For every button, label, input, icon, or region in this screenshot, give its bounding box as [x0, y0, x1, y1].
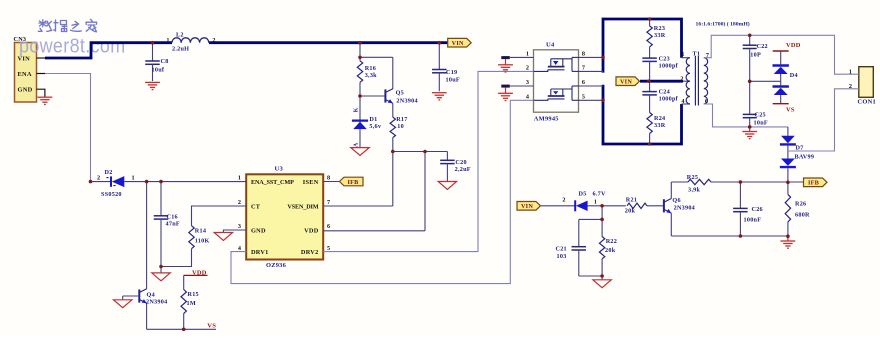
svg-text:R16: R16 — [365, 65, 376, 72]
svg-text:680R: 680R — [795, 212, 810, 219]
svg-text:3,9k: 3,9k — [688, 186, 700, 193]
svg-text:10: 10 — [397, 123, 404, 130]
svg-text:DRV2: DRV2 — [301, 249, 319, 256]
svg-text:R14: R14 — [195, 228, 206, 235]
svg-text:CT: CT — [251, 203, 261, 210]
svg-text:47nF: 47nF — [166, 221, 180, 228]
svg-text:4: 4 — [238, 245, 241, 252]
svg-text:7: 7 — [327, 199, 330, 206]
svg-text:10P: 10P — [750, 51, 761, 58]
svg-text:2: 2 — [526, 65, 529, 72]
svg-text:103: 103 — [557, 253, 567, 260]
svg-text:IFB: IFB — [808, 180, 819, 187]
svg-text:20k: 20k — [605, 247, 616, 254]
svg-text:4: 4 — [681, 98, 684, 105]
svg-text:VIN: VIN — [521, 203, 533, 210]
svg-text:BAV99: BAV99 — [795, 154, 815, 161]
svg-text:10nF: 10nF — [754, 119, 768, 126]
svg-text:8: 8 — [327, 175, 330, 182]
svg-text:R24: R24 — [654, 115, 665, 122]
svg-text:C22: C22 — [757, 43, 768, 50]
svg-text:D4: D4 — [790, 72, 798, 79]
svg-text:VDD: VDD — [304, 227, 319, 234]
svg-text:16:1.6:1700) ( 180mH): 16:1.6:1700) ( 180mH) — [696, 21, 750, 28]
svg-text:2: 2 — [212, 37, 215, 44]
svg-text:A: A — [354, 142, 360, 147]
svg-text:U4: U4 — [546, 42, 555, 49]
svg-text:1: 1 — [594, 198, 597, 205]
svg-text:1: 1 — [166, 37, 169, 44]
svg-text:5: 5 — [327, 245, 330, 252]
svg-text:1000pf: 1000pf — [659, 62, 679, 69]
svg-text:VS: VS — [207, 322, 216, 329]
svg-text:5: 5 — [582, 94, 585, 101]
svg-text:3,3k: 3,3k — [365, 72, 377, 79]
svg-text:D2: D2 — [105, 169, 113, 176]
svg-text:5,6v: 5,6v — [369, 123, 381, 130]
svg-text:2N3904: 2N3904 — [146, 298, 167, 305]
svg-text:6: 6 — [582, 79, 585, 86]
svg-text:C23: C23 — [659, 55, 670, 62]
svg-text:1: 1 — [132, 175, 135, 182]
svg-text:VS: VS — [786, 106, 795, 113]
svg-text:K: K — [354, 107, 360, 112]
svg-text:20k: 20k — [625, 207, 636, 214]
svg-text:C25: C25 — [755, 111, 766, 118]
svg-text:R15: R15 — [188, 291, 199, 298]
svg-text:1: 1 — [681, 51, 684, 58]
svg-text:L2: L2 — [176, 32, 184, 39]
svg-text:U3: U3 — [275, 166, 284, 173]
svg-text:Q4: Q4 — [147, 291, 155, 298]
svg-text:power8t.com: power8t.com — [19, 35, 125, 57]
svg-text:VIN: VIN — [452, 40, 464, 47]
svg-text:6.7V: 6.7V — [593, 191, 606, 198]
svg-text:C19: C19 — [446, 69, 457, 76]
svg-text:R21: R21 — [626, 196, 637, 203]
svg-text:10uf: 10uf — [152, 67, 165, 74]
svg-text:VIN: VIN — [18, 55, 31, 62]
svg-text:CN3: CN3 — [14, 36, 27, 43]
svg-text:VDD: VDD — [192, 269, 207, 276]
svg-text:33R: 33R — [654, 122, 666, 129]
svg-text:110K: 110K — [195, 237, 210, 244]
svg-text:2: 2 — [849, 83, 852, 90]
svg-text:3: 3 — [238, 223, 241, 230]
svg-text:GND: GND — [18, 87, 33, 94]
svg-text:6: 6 — [327, 223, 330, 230]
svg-text:2: 2 — [680, 76, 683, 83]
svg-text:D5: D5 — [579, 191, 587, 198]
svg-text:VIN: VIN — [620, 79, 632, 86]
svg-text:ENA_SST_CMP: ENA_SST_CMP — [251, 179, 294, 186]
svg-text:OZ936: OZ936 — [266, 262, 287, 269]
svg-text:C20: C20 — [455, 159, 466, 166]
svg-text:ENA: ENA — [18, 71, 32, 78]
svg-text:2: 2 — [238, 199, 241, 206]
svg-text:1: 1 — [849, 68, 852, 75]
svg-text:Q6: Q6 — [672, 197, 680, 204]
svg-text:2,2uF: 2,2uF — [455, 166, 471, 173]
svg-text:ISEN: ISEN — [303, 179, 319, 186]
svg-text:C21: C21 — [556, 246, 567, 253]
svg-text:8: 8 — [582, 51, 585, 58]
svg-text:R25: R25 — [687, 174, 698, 181]
svg-text:CON1: CON1 — [858, 99, 876, 106]
svg-text:2N3904: 2N3904 — [674, 204, 695, 211]
svg-text:R26: R26 — [795, 201, 806, 208]
svg-text:IFB: IFB — [347, 179, 358, 186]
svg-text:1: 1 — [238, 175, 241, 182]
svg-text:R23: R23 — [654, 25, 665, 32]
svg-text:C16: C16 — [167, 214, 178, 221]
svg-text:100nF: 100nF — [744, 217, 762, 224]
svg-text:1: 1 — [526, 51, 529, 58]
svg-text:Q5: Q5 — [396, 90, 404, 97]
svg-text:1000pf: 1000pf — [659, 95, 679, 102]
svg-text:VDD: VDD — [786, 42, 801, 49]
svg-text:33R: 33R — [654, 32, 666, 39]
svg-text:VSEN_DIM: VSEN_DIM — [287, 203, 318, 210]
svg-text:2N3904: 2N3904 — [396, 98, 417, 105]
svg-text:T1: T1 — [693, 51, 701, 58]
svg-text:GND: GND — [251, 227, 266, 234]
svg-text:7: 7 — [582, 65, 585, 72]
svg-text:C8: C8 — [161, 58, 169, 65]
svg-text:SS0520: SS0520 — [101, 191, 122, 198]
svg-text:C26: C26 — [752, 206, 763, 213]
svg-text:4: 4 — [526, 94, 529, 101]
svg-text:R22: R22 — [606, 238, 617, 245]
svg-text:1M: 1M — [187, 300, 196, 307]
svg-text:DRV1: DRV1 — [251, 249, 269, 256]
svg-text:2: 2 — [562, 197, 565, 204]
svg-text:C24: C24 — [659, 88, 670, 95]
svg-text:10uF: 10uF — [446, 77, 460, 84]
svg-text:3: 3 — [526, 79, 529, 86]
svg-text:AM9945: AM9945 — [534, 115, 559, 122]
svg-text:2.2uH: 2.2uH — [172, 46, 189, 53]
svg-text:2: 2 — [97, 175, 100, 182]
